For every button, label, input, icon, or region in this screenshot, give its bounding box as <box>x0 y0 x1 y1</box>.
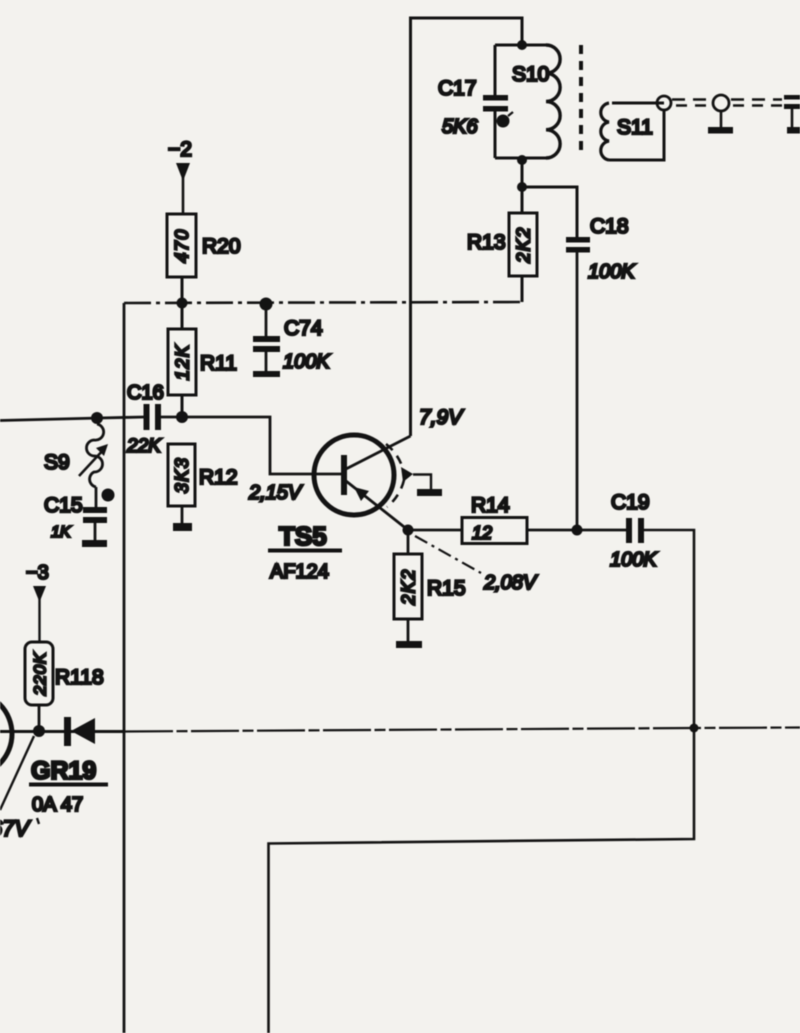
ground below R15 <box>396 641 422 648</box>
wire: long vertical rail x=124 <box>123 303 126 1033</box>
wire: S10 bottom down to R13 <box>521 158 524 213</box>
wire: base line from left edge through C16 <box>0 417 144 421</box>
label 2,15V <box>248 482 303 504</box>
svg-text:67V: 67V <box>0 816 31 841</box>
wire: C18 bottom down to R14 output node <box>576 253 579 531</box>
ground below C15 <box>82 540 107 547</box>
terminal circle at S11 <box>657 96 671 110</box>
svg-text:R13: R13 <box>467 231 506 254</box>
svg-text:5K6: 5K6 <box>442 116 478 138</box>
svg-text:S11: S11 <box>617 116 653 139</box>
shield dashed divider between S10 and S11 <box>579 45 583 155</box>
wire: C19 right, down, across and down to bottom <box>269 530 695 1033</box>
resistor R11 <box>168 329 237 395</box>
node: base divider junction <box>176 411 188 423</box>
inductor S9 (variable) <box>44 424 108 487</box>
transistor TS5 <box>268 435 411 583</box>
chassis ground at shield arrow <box>413 475 442 497</box>
svg-text:3K3: 3K3 <box>172 457 192 494</box>
wire: R14 to C19 <box>527 529 626 532</box>
svg-text:R118: R118 <box>55 666 104 689</box>
node: C19 line on chassis line <box>690 724 699 733</box>
capacitor C17 (trimmer, inside S10 loop) <box>438 77 513 138</box>
label 7,9V <box>419 406 464 429</box>
svg-text:S10: S10 <box>512 63 549 86</box>
svg-text:−2: −2 <box>168 138 192 161</box>
svg-text:2K2: 2K2 <box>514 226 534 264</box>
wire: top loop from transistor emitter to S10 top <box>411 18 523 436</box>
svg-text:S9: S9 <box>44 451 70 474</box>
shield/supply dash-dot rail y=302 <box>124 302 522 303</box>
svg-text:220K: 220K <box>31 652 50 697</box>
svg-text:22K: 22K <box>126 436 162 457</box>
coil S10 <box>495 45 560 158</box>
svg-text:470: 470 <box>172 228 192 263</box>
svg-text:C18: C18 <box>590 215 629 238</box>
supply arrow -2 <box>168 138 192 214</box>
node: S10 bottom junction <box>517 155 527 165</box>
resistor R14 <box>462 494 527 544</box>
svg-text:C16: C16 <box>127 382 164 404</box>
wire: R12 bottom lead <box>181 506 184 524</box>
svg-text:C74: C74 <box>284 317 323 340</box>
svg-text:R11: R11 <box>200 352 237 375</box>
svg-text:R12: R12 <box>199 466 238 489</box>
shield arc of TS5 <box>386 444 413 507</box>
node: S9 tap junction <box>91 412 103 424</box>
svg-text:−3: −3 <box>26 562 49 584</box>
resistor R118 <box>25 642 104 731</box>
svg-text:2,08V: 2,08V <box>483 572 538 594</box>
wire: branch to C18 top <box>522 187 577 237</box>
svg-text:12K: 12K <box>173 344 193 381</box>
svg-text:2K2: 2K2 <box>399 568 419 606</box>
terminal circle 2 with chassis <box>708 95 733 134</box>
svg-text:100K: 100K <box>588 261 636 283</box>
node: R118/diode junction <box>33 725 45 737</box>
capacitor C19 <box>610 491 658 571</box>
coil S11 <box>601 103 664 160</box>
feed-through capacitor at right edge <box>784 95 800 134</box>
pointer line to 67V <box>0 736 34 810</box>
resistor R12 <box>168 444 238 506</box>
resistor R20 <box>167 214 241 277</box>
svg-text:R14: R14 <box>471 494 510 517</box>
resistor R15 <box>394 530 466 641</box>
svg-text:TS5: TS5 <box>279 521 327 551</box>
resistor R13 <box>467 213 537 276</box>
capacitor C16 <box>126 382 164 457</box>
node: branch junction to C18 <box>517 182 527 192</box>
svg-text:100K: 100K <box>283 351 331 373</box>
svg-text:C19: C19 <box>611 491 650 514</box>
wire: R11 bottom to base node <box>181 395 184 417</box>
svg-text:7,9V: 7,9V <box>419 406 464 429</box>
svg-text:12: 12 <box>472 523 492 543</box>
label 67V (clipped) <box>0 816 39 841</box>
capacitor C74 <box>253 298 331 378</box>
capacitor C18 <box>566 215 636 283</box>
wire: C16 to base corner <box>161 417 342 474</box>
chassis line y=731 <box>0 728 800 732</box>
svg-text:0A 47: 0A 47 <box>32 794 83 816</box>
capacitor C15 (trimmer) <box>44 487 115 541</box>
pointer to 2,08V <box>415 536 538 594</box>
svg-text:2,15V: 2,15V <box>248 482 303 504</box>
node: emitter output junction <box>403 525 414 536</box>
node: S10 top junction <box>517 40 527 50</box>
diode GR19 (OA47) <box>29 717 108 816</box>
svg-text:R15: R15 <box>427 577 466 600</box>
partial transistor at left edge <box>0 692 12 776</box>
svg-text:GR19: GR19 <box>31 757 96 785</box>
wire: emitter to R14 <box>408 529 462 532</box>
svg-text:AF124: AF124 <box>270 561 329 583</box>
ground below R12 <box>173 523 192 531</box>
wire: R20 to junction <box>181 277 184 329</box>
wire: R13 bottom to shield rail <box>521 276 524 302</box>
node: R20/R11 junction on rail <box>177 298 188 309</box>
svg-text:100K: 100K <box>610 549 658 571</box>
svg-text:1K: 1K <box>51 524 72 541</box>
supply arrow -3 <box>26 562 49 642</box>
node: C18/R14 junction <box>572 525 583 536</box>
svg-text:C15: C15 <box>44 494 83 517</box>
svg-text:R20: R20 <box>202 235 241 258</box>
double dashed link line <box>672 100 782 106</box>
svg-text:C17: C17 <box>438 77 477 100</box>
